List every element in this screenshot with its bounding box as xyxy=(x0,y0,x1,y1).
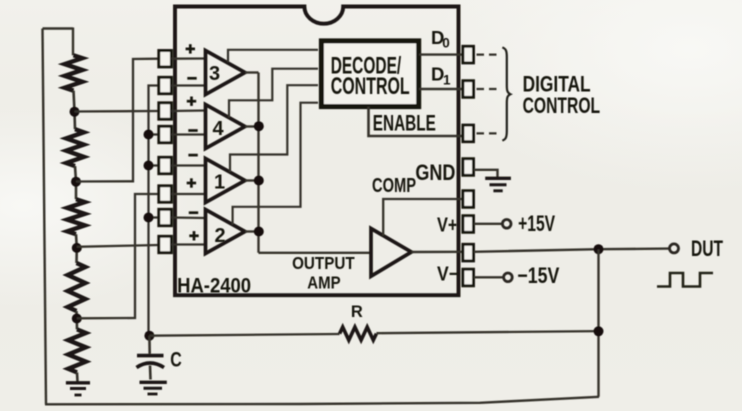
svg-text:GND: GND xyxy=(415,160,455,185)
svg-text:R: R xyxy=(351,303,363,321)
svg-text:AMP: AMP xyxy=(307,272,341,292)
svg-text:COMP: COMP xyxy=(372,175,416,197)
svg-text:CONTROL: CONTROL xyxy=(331,73,410,100)
svg-text:4: 4 xyxy=(212,118,224,140)
svg-text:CONTROL: CONTROL xyxy=(523,93,601,118)
svg-text:OUTPUT: OUTPUT xyxy=(292,253,355,273)
svg-text:1: 1 xyxy=(443,72,451,87)
svg-text:C: C xyxy=(170,349,182,372)
svg-text:V+: V+ xyxy=(437,214,458,236)
svg-text:−15V: −15V xyxy=(517,263,559,288)
svg-text:+15V: +15V xyxy=(518,211,555,236)
svg-text:DUT: DUT xyxy=(691,236,723,261)
svg-text:2: 2 xyxy=(214,225,225,247)
svg-text:3: 3 xyxy=(209,63,220,85)
svg-text:1: 1 xyxy=(214,171,225,193)
svg-text:0: 0 xyxy=(442,35,450,50)
svg-text:ENABLE: ENABLE xyxy=(373,111,436,136)
svg-text:HA-2400: HA-2400 xyxy=(177,273,251,297)
svg-text:V−: V− xyxy=(437,264,459,286)
